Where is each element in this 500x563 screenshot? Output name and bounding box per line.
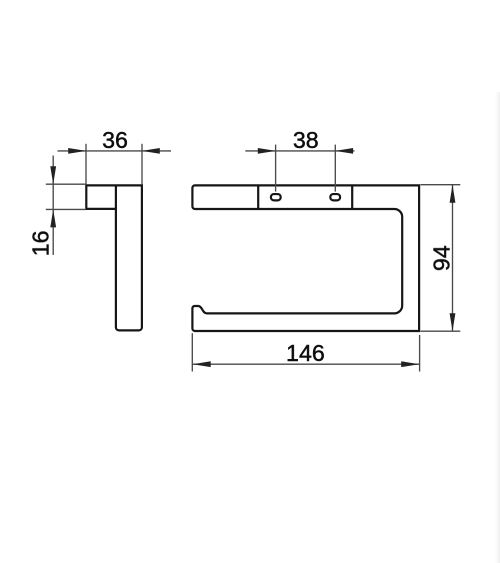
holder front outline <box>192 185 419 331</box>
dim 16 arrow top <box>50 166 56 184</box>
dim 38 extension line left <box>275 145 277 192</box>
svg-text:36: 36 <box>102 127 128 153</box>
dim 38 dimension line <box>245 150 354 152</box>
wall plate divider left <box>257 185 259 209</box>
dim 36 arrow right <box>142 148 160 154</box>
dim 36 extension line left <box>85 144 87 185</box>
dim 146 extension line left <box>191 333 193 371</box>
svg-text:16: 16 <box>28 231 54 257</box>
dim 146 extension line right <box>419 335 421 372</box>
svg-text:94: 94 <box>429 245 455 271</box>
wall plate divider right <box>351 185 353 209</box>
dim 94 dimension line <box>452 185 454 332</box>
mounting hole right <box>330 194 340 200</box>
dim 38 arrow left <box>258 148 276 154</box>
mounting hole left <box>271 194 281 200</box>
svg-text:38: 38 <box>293 127 319 153</box>
dim 146 dimension line <box>192 363 419 365</box>
dim 36 dimension line <box>58 150 172 152</box>
dim 94 arrow top <box>450 185 456 203</box>
faint page edge strip right <box>493 92 500 563</box>
dim 16 extension line top <box>46 183 86 185</box>
svg-text:146: 146 <box>286 340 325 366</box>
dim 38 arrow right <box>335 148 353 154</box>
dim 94 extension line bottom <box>421 330 461 332</box>
dim 146 arrow left <box>193 361 211 367</box>
dim 16 dimension line <box>52 156 54 256</box>
dim 94 arrow bottom <box>450 313 456 331</box>
dim 16 extension line bottom <box>46 208 86 210</box>
dim 94 extension line top <box>421 184 461 186</box>
dim 38 extension line right <box>334 145 336 192</box>
dim 36 extension line right <box>141 144 143 185</box>
dim 16 arrow bottom <box>50 209 56 227</box>
holder side-view outline <box>86 185 142 330</box>
dim 146 arrow right <box>401 361 419 367</box>
dim 36 arrow left <box>68 148 86 154</box>
